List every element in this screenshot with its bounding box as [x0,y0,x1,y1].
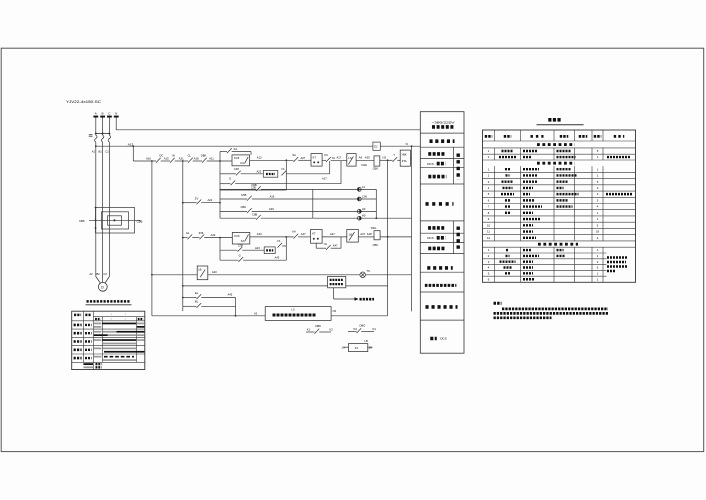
contact YA close branch [316,237,341,250]
current transformer CBK [79,207,142,233]
contact D55 feeder [220,193,313,201]
bottom wire [152,315,265,317]
label power monitor 1 [430,139,455,143]
right rail N [411,145,413,311]
svg-text:11: 11 [487,230,490,234]
svg-text:A21: A21 [179,157,184,161]
svg-text:A43: A43 [255,246,260,250]
contactor coil KC close [232,232,250,244]
wire C90 [220,185,286,190]
section header panel parts [537,162,575,165]
cam bars row 3 [94,339,145,344]
svg-text:A22: A22 [208,198,213,202]
svg-text:K3: K3 [354,327,358,331]
svg-text:A23: A23 [212,270,217,274]
contact KA bypass [220,147,251,161]
terminal C [107,112,112,118]
lamp LSN [313,194,377,201]
svg-text:KA: KA [292,230,296,234]
svg-text:DCS: DCS [427,162,434,166]
svg-text:A17: A17 [337,155,342,159]
svg-text:↓: ↓ [124,313,125,316]
limit switch LS open [347,154,356,167]
svg-text:CBK: CBK [373,243,379,247]
terminal N [114,112,119,118]
label local operation 1 [428,175,446,179]
test point TS [360,269,370,277]
svg-text:LB: LB [365,339,368,343]
svg-text:A6: A6 [359,155,363,159]
svg-text:D3G: D3G [362,163,368,167]
lamp H0 [313,214,412,221]
cam table title [86,301,132,304]
contact ZV rung [182,197,220,205]
contact C38 close [220,244,264,252]
svg-text:ZV: ZV [195,197,199,201]
table rows operator station [488,149,631,159]
svg-text:YBK: YBK [401,153,407,157]
svg-text:↓: ↓ [124,318,125,321]
svg-text:D3G: D3G [371,226,377,230]
labels A1 B1 C1 [92,150,110,154]
cam bars row 1 [94,323,145,328]
svg-text:CBK: CBK [79,219,85,223]
svg-text:A47: A47 [301,232,306,236]
cam table header [74,313,143,321]
contact G close [220,253,286,261]
svg-text:YA: YA [277,239,281,243]
wire TS to rail [366,274,412,276]
contact D9B feeder [220,183,313,191]
wire A23 rung [208,270,360,275]
wire bus to N [380,142,420,146]
wire A35 [356,155,374,160]
label panel operation 2 [428,226,446,230]
remote terminal box [254,307,337,321]
contact DBK aux [306,324,333,333]
svg-text:D: D [101,285,104,289]
terminal A [93,112,98,118]
contact EL [182,291,236,299]
function label column [420,112,464,354]
svg-text:E: E [229,177,231,181]
label to DCS [430,337,446,341]
svg-text:N: N [406,142,408,146]
terminal B [100,112,105,118]
svg-text:A49: A49 [269,207,274,211]
svg-text:K4: K4 [373,327,377,331]
contact C8B feeder [220,213,313,220]
contact SA open [292,153,311,162]
wire relay to rail [346,285,388,287]
phase tie bar [89,133,111,137]
notes title [494,302,502,305]
equipment table header [485,135,625,138]
svg-text:A43: A43 [257,232,262,236]
aux box close [264,239,286,254]
label panel operation 1 [428,152,446,156]
svg-text:12: 12 [487,236,491,240]
svg-text:D55: D55 [242,193,247,197]
svg-text:C38: C38 [238,244,243,248]
wire close to rail [380,236,411,238]
phase wire B [101,118,104,283]
svg-text:A42: A42 [211,233,216,237]
svg-text:A15: A15 [164,157,169,161]
label valve position relay [425,284,457,287]
svg-text:A47: A47 [333,244,338,248]
equipment table title [537,120,584,125]
close rung wire [182,231,232,239]
svg-text:Z35: Z35 [199,231,204,235]
svg-text:A47: A47 [330,232,335,236]
relay line wire [182,285,328,287]
svg-text:A17: A17 [322,177,327,181]
svg-text:K2: K2 [330,328,334,332]
open rung wire [133,158,232,163]
label open valve loop [457,154,460,181]
timer KT close [311,230,323,244]
svg-text:H0: H0 [362,214,366,218]
svg-text:N3: N3 [383,155,387,159]
svg-text:KC: KC [324,153,328,157]
left rail 1 [151,160,153,316]
svg-text:A11: A11 [209,157,214,161]
svg-text:~380/220V: ~380/220V [432,120,455,124]
notes line 3 [494,316,552,319]
svg-text:A45: A45 [228,293,233,297]
svg-text:DBK: DBK [316,324,322,328]
svg-text:YA: YA [324,242,328,246]
contact T [380,153,400,162]
aux relay ZJ coil [342,339,373,352]
svg-text:SA: SA [292,153,296,157]
cam table row labels [74,325,92,358]
table remark merged cell [607,258,628,272]
svg-text:N3: N3 [333,309,337,313]
label power monitor 2 [427,266,453,270]
svg-text:DCS: DCS [440,337,447,341]
limit switch LB close [347,230,359,243]
svg-text:C2: C2 [103,272,107,276]
svg-text:A07: A07 [301,156,306,160]
svg-text:K1: K1 [307,328,311,332]
svg-text:KC5: KC5 [234,156,240,160]
wire A43 [250,232,294,237]
control bus A13 [95,142,373,147]
svg-text:A18: A18 [194,157,199,161]
section header operator station [537,143,575,146]
phase wire A [95,118,101,284]
wire A48 [358,232,374,237]
svg-text:A48: A48 [367,232,372,236]
svg-text:A19: A19 [270,194,275,198]
svg-text:TS: TS [366,269,370,273]
intermediate relay box [328,276,346,287]
svg-text:G: G [239,253,241,257]
svg-text:H3: H3 [362,207,366,211]
svg-text:A47: A47 [360,232,365,236]
svg-text:L3N: L3N [362,194,367,198]
svg-text:B1: B1 [99,150,103,154]
torque switch LB rung [151,274,197,276]
svg-text:KT: KT [312,232,316,236]
contact BL [183,300,236,308]
svg-text:DBK: DBK [201,154,207,158]
svg-text:C8B: C8B [252,213,257,217]
aux box open [257,161,330,181]
svg-text:DBG: DBG [360,324,366,328]
svg-text:YA: YA [332,156,336,160]
left rail 2 [182,160,184,311]
valve position signal arrow [334,288,374,301]
label remote control cabinet [426,305,458,309]
cable label YJV22-4x150-SC [66,100,102,104]
cam bars row 4 [94,348,145,353]
svg-text:D9B: D9B [252,183,257,187]
contact C38 open [220,167,263,176]
svg-text:A: A [95,112,97,116]
label 380/220V power in [432,120,456,127]
wire A12 [250,155,294,160]
svg-text:CBB: CBB [137,219,143,223]
svg-text:YJV22-4x150-SC: YJV22-4x150-SC [66,100,102,104]
terminal box D3G close [371,226,380,247]
svg-text:DCS: DCS [427,236,434,240]
contact DBG aux [348,324,376,334]
neutral wire N [116,118,420,130]
label lamp signal [426,202,454,206]
contact KC open [322,153,347,162]
svg-text:CBK: CBK [241,205,247,209]
svg-text:ZJ: ZJ [355,346,359,350]
terminal box CBK open [362,156,389,171]
motor M [89,272,107,291]
svg-text:A2: A2 [254,312,258,316]
table rows panel parts [487,167,632,240]
svg-text:A35: A35 [365,155,370,159]
label DCS operation 2 [427,236,445,240]
svg-text:N: N [115,112,117,116]
feedback bracket open [220,159,287,190]
contact E open [220,161,341,185]
contact CBK feeder [220,205,313,213]
svg-text:A16: A16 [146,157,151,161]
svg-text:A23: A23 [257,170,262,174]
notes line 1 [502,308,608,311]
svg-text:ZTA: ZTA [402,159,407,163]
right rail 1 [387,161,389,316]
svg-text:KA: KA [234,147,238,151]
notes line 2 [494,312,609,315]
svg-text:A2: A2 [89,272,93,276]
lamp H3 [313,207,377,213]
power monitor relay ZJ [373,142,380,150]
table rows valve parts [488,248,599,281]
svg-text:L3: L3 [362,185,365,189]
svg-text:A43: A43 [275,255,280,259]
lamp bracket rails [313,189,377,219]
EL BL join wire [235,298,237,317]
svg-text:LB: LB [198,268,201,272]
svg-text:GL: GL [186,231,190,235]
label local operation 2 [428,247,446,251]
bottom wire right [331,315,388,317]
svg-text:KA: KA [241,161,245,165]
svg-text:A12: A12 [257,155,262,159]
svg-text:YA: YA [281,167,285,171]
bus drop wire [132,145,134,161]
label DCS operation 1 [427,162,445,166]
open rung labels [146,154,214,161]
cam bars row 5 [94,356,136,361]
svg-text:KT: KT [313,155,317,159]
svg-text:B: B [102,112,104,116]
svg-text:B2: B2 [96,272,100,276]
svg-text:CL: CL [188,154,192,158]
svg-text:↓: ↓ [110,318,111,321]
cam bars row 2 [94,331,145,336]
svg-text:L3: L3 [292,308,295,312]
switch box LB [197,266,208,280]
equipment table grid [483,130,636,282]
feedback bracket close [220,236,287,260]
brake YBK [400,150,411,166]
svg-text:10: 10 [487,223,491,227]
cam table legend [83,363,101,368]
lamp L3 [313,185,377,192]
svg-text:BL: BL [195,300,199,304]
svg-text:18: 18 [596,230,600,234]
timer KT open [311,154,322,167]
svg-text:KC6: KC6 [234,234,240,238]
svg-text:KA: KA [241,239,245,243]
lamp feeder bracket [219,189,221,218]
phase wire C [105,118,111,284]
wire KT to LB [322,232,347,237]
contactor coil KC open [232,155,250,166]
svg-text:ZJ: ZJ [374,145,378,149]
svg-text:EL: EL [195,291,199,295]
svg-text:↓: ↓ [110,313,111,316]
svg-text:A1: A1 [92,150,96,154]
svg-text:C38: C38 [234,167,239,171]
svg-text:C1: C1 [105,150,109,154]
section header valve parts [538,243,578,246]
svg-text:CBK: CBK [373,167,379,171]
cam table grid [72,311,145,369]
label close valve loop [457,227,460,251]
contact KA close [292,230,310,239]
